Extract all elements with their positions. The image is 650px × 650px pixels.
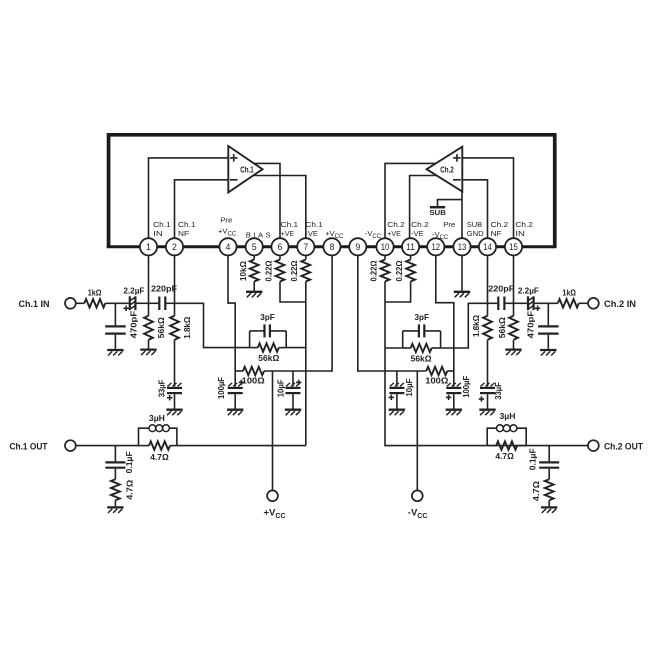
IC package outline xyxy=(107,135,557,247)
pin 13 xyxy=(453,238,470,255)
wire R 1k to node A xyxy=(105,302,129,304)
wire C 10uF to ground xyxy=(292,394,294,408)
wire C 10uF to ground Ch.2 xyxy=(396,394,398,408)
terminal -VCC xyxy=(408,490,428,520)
svg-text:6: 6 xyxy=(278,242,283,252)
wire NF node to feedback Ch.2 xyxy=(441,303,488,348)
capacitor 220pF Ch.1 xyxy=(151,284,177,310)
pin 14 label Ch.2 NF xyxy=(491,220,509,238)
wire Ch.2 IN terminal to R 1k xyxy=(579,302,588,304)
svg-text:-VE: -VE xyxy=(305,229,318,238)
svg-text:Ch.1 IN: Ch.1 IN xyxy=(19,299,50,309)
capacitor 2.2uF Ch.1 input xyxy=(123,285,144,311)
wire Ch.2 output to pin10 xyxy=(385,163,436,238)
capacitor 33uF Ch.1 xyxy=(157,380,182,401)
wire Zobel node down to C 0.1uF xyxy=(114,446,116,462)
wire Zobel node down to C 0.1uF Ch.2 xyxy=(548,446,550,462)
terminal Ch.2 OUT xyxy=(588,440,643,451)
pin 11 label Ch.2 -VE xyxy=(411,220,429,238)
svg-text:4: 4 xyxy=(226,242,231,252)
svg-text:11: 11 xyxy=(406,242,415,252)
ground below 470pF Ch.1 xyxy=(107,350,123,356)
wire feedback to output node Ch.2 xyxy=(385,347,403,349)
wire pin15 to Ch.2 + input xyxy=(462,158,513,238)
pin 12 xyxy=(427,238,444,255)
wire feedback left junction Ch.2 xyxy=(402,331,404,348)
svg-text:0.22Ω: 0.22Ω xyxy=(370,260,379,281)
resistor 1k ohm Ch.1 input xyxy=(84,288,105,308)
pin 11 xyxy=(402,238,419,255)
svg-text:2.2µF: 2.2µF xyxy=(518,285,539,295)
svg-text:SUB: SUB xyxy=(429,208,446,217)
pin 10 label Ch.2 +VE xyxy=(387,220,405,238)
svg-text:NF: NF xyxy=(178,229,189,238)
svg-text:220pF: 220pF xyxy=(488,284,514,294)
wire -VCC rail xyxy=(358,370,454,372)
svg-text:15: 15 xyxy=(509,242,518,252)
resistor 56k ohm Ch.1 feedback xyxy=(250,343,287,363)
svg-text:GND: GND xyxy=(467,229,485,238)
wire feedback right junction Ch.2 xyxy=(440,331,442,348)
resistor 0.22 ohm pin7 xyxy=(290,260,310,282)
wire C 2.2uF to pin1 node xyxy=(137,302,149,304)
svg-text:56kΩ: 56kΩ xyxy=(157,317,166,338)
wire R 1k to node B xyxy=(535,302,558,304)
pin 1 label Ch.1 IN xyxy=(153,220,171,238)
pin 5 xyxy=(246,238,263,255)
svg-text:0.1µF: 0.1µF xyxy=(125,451,134,473)
resistor 10k ohm BIAS xyxy=(239,260,259,282)
ground below 100uF Ch.2 xyxy=(446,410,462,416)
pin 9 label -VCC xyxy=(365,229,382,240)
resistor 0.22 ohm pin10 xyxy=(370,260,390,282)
wire Ch.2 output to pin11 xyxy=(410,176,437,239)
wire feedback left junction Ch.1 xyxy=(249,331,251,348)
resistor 0.22 ohm pin11 xyxy=(395,260,415,282)
terminal Ch.2 IN xyxy=(588,298,636,309)
pin 12 label Pre -VCC xyxy=(432,220,455,241)
wire pin8 down to +VCC rail xyxy=(331,255,333,371)
wire C 220pF to pin2 node xyxy=(166,302,174,304)
wire 10uF to +VCC rail xyxy=(292,371,294,387)
svg-text:-VCC: -VCC xyxy=(408,508,428,520)
pin 10 xyxy=(376,238,393,255)
svg-text:Ch.2: Ch.2 xyxy=(440,166,454,175)
svg-text:4.7Ω: 4.7Ω xyxy=(495,451,514,461)
svg-text:100µF: 100µF xyxy=(217,377,226,399)
wire pin13 to ground xyxy=(461,255,463,290)
wire R 1.8k to C 33uF xyxy=(174,340,176,387)
wire pin11 to R 0.22 xyxy=(410,255,412,259)
wire pin14 down to R 1.8k xyxy=(487,255,489,315)
node B wire down to C 470pF xyxy=(547,303,549,325)
svg-text:56kΩ: 56kΩ xyxy=(411,354,432,364)
svg-text:13: 13 xyxy=(458,242,467,252)
pin 7 label Ch.1 -VE xyxy=(305,220,323,238)
wire 10uF to -VCC rail xyxy=(396,371,398,387)
svg-text:10µF: 10µF xyxy=(405,379,414,397)
svg-text:7: 7 xyxy=(303,242,308,252)
resistor 1k ohm Ch.2 input xyxy=(558,288,579,308)
wire R 1.8k to C 33uF Ch.2 xyxy=(487,340,489,387)
pin 5 label BIAS xyxy=(246,230,271,239)
resistor 1.8k ohm Ch.2 xyxy=(472,315,492,340)
wire pin5 to R 10k xyxy=(253,255,255,259)
wire pin7 to R 0.22 xyxy=(305,255,307,259)
ground below Zobel Ch.2 xyxy=(541,507,557,513)
svg-text:470pF: 470pF xyxy=(526,311,535,339)
svg-text:33µF: 33µF xyxy=(157,380,166,398)
pin 15 xyxy=(505,238,522,255)
resistor 100 ohm +VCC filter xyxy=(242,367,265,386)
svg-text:Pre: Pre xyxy=(443,220,455,229)
svg-text:+VCC: +VCC xyxy=(264,508,286,520)
capacitor 470pF Ch.2 xyxy=(526,311,558,339)
inductor 3uH Ch.1 xyxy=(139,413,177,445)
wire Ch.1 IN terminal to R 1k xyxy=(76,302,85,304)
op-amp U2 Ch.2 xyxy=(427,147,463,192)
terminal Ch.1 IN xyxy=(19,298,76,309)
wire pin14 to Ch.2 - input xyxy=(462,180,487,238)
wire C 100uF to ground Ch.2 xyxy=(453,394,455,408)
svg-text:0.1µF: 0.1µF xyxy=(528,448,537,470)
resistor 4.7 ohm Ch.2 Zobel xyxy=(532,479,554,501)
wire pin15 down to R 56k xyxy=(513,255,515,315)
wire pin12 down to 100uF node xyxy=(436,255,454,386)
pin 2 xyxy=(166,238,183,255)
svg-text:3µH: 3µH xyxy=(149,413,165,423)
svg-text:0.22Ω: 0.22Ω xyxy=(395,260,404,281)
svg-text:2.2µF: 2.2µF xyxy=(123,285,144,295)
svg-text:Ch.1: Ch.1 xyxy=(240,166,254,175)
svg-text:+VCC: +VCC xyxy=(218,226,237,237)
svg-text:3pF: 3pF xyxy=(260,312,275,322)
svg-text:3pF: 3pF xyxy=(414,312,429,322)
wire pin6 to R 0.22 xyxy=(279,255,281,259)
wire Ch.1 output to pin7 xyxy=(253,176,306,239)
svg-text:BIAS: BIAS xyxy=(246,230,271,239)
substrate SUB symbol xyxy=(429,200,462,218)
svg-text:Ch.1 OUT: Ch.1 OUT xyxy=(10,441,48,451)
wire pin2 down to R 1.8k xyxy=(174,255,176,315)
ground below 10uF Ch.2 xyxy=(389,410,405,416)
wire NF node to feedback Ch.1 xyxy=(175,303,250,347)
svg-text:4.7Ω: 4.7Ω xyxy=(532,481,541,501)
resistor 56k ohm Ch.2 feedback xyxy=(403,344,441,364)
svg-text:-VCC: -VCC xyxy=(365,229,382,240)
capacitor 100uF Ch.1 supply xyxy=(217,377,244,399)
svg-text:100µF: 100µF xyxy=(462,376,471,398)
ground below 33uF Ch.2 xyxy=(479,410,495,416)
wire R 4.7 to ground xyxy=(114,500,116,506)
wire Ch.1 OUT to Zobel node xyxy=(76,445,139,447)
svg-text:100Ω: 100Ω xyxy=(242,376,265,386)
pin 7 xyxy=(297,238,314,255)
ground below 56k Ch.2 xyxy=(505,350,521,356)
pin 2 label Ch.1 NF xyxy=(178,220,196,238)
wire C 33uF to ground xyxy=(174,394,176,408)
svg-text:3µH: 3µH xyxy=(500,411,516,421)
svg-text:9: 9 xyxy=(355,242,360,252)
svg-text:IN: IN xyxy=(153,229,163,238)
ground below 100uF Ch.1 xyxy=(227,410,243,416)
capacitor 2.2uF Ch.2 input xyxy=(518,285,540,311)
wire Ch.1 output to pin6 xyxy=(254,163,280,238)
wire C 470pF to ground xyxy=(114,335,116,349)
ground below R 10k xyxy=(246,292,262,298)
svg-text:56kΩ: 56kΩ xyxy=(258,353,279,363)
wire pin1 down to R 56k xyxy=(148,255,150,315)
wire pin1 to Ch.1 + input xyxy=(149,158,229,238)
wire R 56k to ground xyxy=(148,340,150,349)
wire C 0.1uF to R 4.7 xyxy=(114,469,116,480)
wire Ch.2 output node down xyxy=(385,282,588,446)
wire R 10k to ground xyxy=(253,282,255,291)
wire pin4 down to 100uF node xyxy=(228,255,235,386)
svg-text:Ch.2 IN: Ch.2 IN xyxy=(604,299,636,309)
capacitor 3pF Ch.2 feedback xyxy=(403,312,441,338)
op-amp U1 Ch.1 xyxy=(228,146,262,192)
pin 4 label Pre +VCC xyxy=(218,216,237,238)
svg-text:1.8kΩ: 1.8kΩ xyxy=(472,315,481,337)
svg-text:+VE: +VE xyxy=(281,229,295,238)
wire +VCC terminal riser xyxy=(272,371,274,490)
resistor 100 ohm -VCC filter xyxy=(425,367,448,386)
capacitor 33uF Ch.2 xyxy=(479,382,504,401)
resistor 1.8k ohm Ch.1 xyxy=(170,316,192,340)
wire pin13 to Ch.2 substrate xyxy=(461,192,463,239)
capacitor 0.1uF Ch.1 Zobel xyxy=(105,451,134,473)
svg-text:1kΩ: 1kΩ xyxy=(562,288,576,298)
wire pin15 node to C 220pF xyxy=(506,302,514,304)
capacitor 220pF Ch.2 xyxy=(488,284,514,310)
resistor 56k ohm Ch.1 input xyxy=(144,316,166,340)
pin 14 xyxy=(479,238,496,255)
wire Ch.1 output node down xyxy=(305,282,307,446)
svg-text:470pF: 470pF xyxy=(130,311,139,339)
wire feedback to output node Ch.1 xyxy=(286,347,306,349)
svg-text:NF: NF xyxy=(491,229,502,238)
pin 15 label Ch.2 IN xyxy=(515,220,533,238)
svg-text:Pre: Pre xyxy=(220,216,232,225)
wire feedback right junction Ch.1 xyxy=(285,331,287,348)
ground below Zobel Ch.1 xyxy=(107,507,123,513)
wire pin10 to R 0.22 xyxy=(384,255,386,259)
svg-text:1.8kΩ: 1.8kΩ xyxy=(183,316,192,338)
svg-text:8: 8 xyxy=(329,242,334,252)
wire C 220pF to pin14 node xyxy=(488,302,498,304)
wire R 56k to ground Ch.2 xyxy=(513,340,515,349)
pin 6 label Ch.1 +VE xyxy=(281,220,299,238)
capacitor 3pF Ch.1 feedback xyxy=(250,312,287,338)
inductor 3uH Ch.2 xyxy=(487,411,526,445)
ground below 56k Ch.1 xyxy=(140,350,156,356)
svg-text:0.22Ω: 0.22Ω xyxy=(290,260,299,281)
resistor 4.7 ohm Ch.2 damping xyxy=(487,441,526,461)
wire C 33uF to ground Ch.2 xyxy=(487,394,489,408)
ground below 10uF Ch.1 xyxy=(285,410,301,416)
resistor 4.7 ohm Ch.1 Zobel xyxy=(111,479,135,500)
resistor 0.22 ohm pin6 xyxy=(264,260,284,282)
svg-text:0.22Ω: 0.22Ω xyxy=(264,260,273,281)
pin 13 label SUB GND xyxy=(467,220,485,238)
wire pin2 to Ch.1 - input xyxy=(175,180,229,238)
svg-text:IN: IN xyxy=(515,229,525,238)
wire pin9 down to -VCC rail xyxy=(357,255,359,371)
svg-text:4.7Ω: 4.7Ω xyxy=(126,479,135,499)
svg-text:14: 14 xyxy=(483,242,492,252)
svg-text:10kΩ: 10kΩ xyxy=(239,261,248,281)
svg-text:10µF: 10µF xyxy=(277,379,286,397)
svg-text:10: 10 xyxy=(381,242,390,252)
svg-text:12: 12 xyxy=(432,242,441,252)
resistor 4.7 ohm Ch.1 damping xyxy=(139,441,177,462)
node A wire down to C 470pF xyxy=(114,303,116,325)
ground below 33uF Ch.1 xyxy=(166,410,182,416)
pin 6 xyxy=(271,238,288,255)
svg-text:1kΩ: 1kΩ xyxy=(88,288,102,298)
pin 1 xyxy=(140,238,157,255)
svg-text:1: 1 xyxy=(146,242,151,252)
svg-text:Ch.2 OUT: Ch.2 OUT xyxy=(604,441,643,451)
wire C 0.1uF to R 4.7 Ch.2 xyxy=(548,469,550,480)
svg-text:33µF: 33µF xyxy=(494,382,503,400)
ground below 470pF Ch.2 xyxy=(540,350,556,356)
svg-text:2: 2 xyxy=(172,242,177,252)
wire C 470pF to ground Ch.2 xyxy=(547,335,549,349)
capacitor 470pF Ch.1 xyxy=(105,311,138,339)
capacitor 10uF Ch.2 supply xyxy=(389,379,414,401)
svg-text:100Ω: 100Ω xyxy=(425,376,448,386)
svg-text:5: 5 xyxy=(252,242,257,252)
wire +VCC rail xyxy=(235,370,332,372)
pin 9 xyxy=(349,238,366,255)
svg-text:220pF: 220pF xyxy=(151,284,177,294)
wire C 100uF to ground xyxy=(234,394,236,408)
svg-text:4.7Ω: 4.7Ω xyxy=(150,452,169,462)
pin 8 xyxy=(323,238,340,255)
wire joining 0.22 ohm resistors Ch.2 xyxy=(385,282,411,303)
resistor 56k ohm Ch.2 input xyxy=(498,316,518,340)
wire C 2.2uF to pin15 node xyxy=(514,302,527,304)
capacitor 10uF Ch.1 supply xyxy=(277,379,302,397)
terminal Ch.1 OUT xyxy=(10,440,76,451)
pin 8 label +VCC xyxy=(325,229,344,240)
wire -VCC terminal riser xyxy=(416,371,418,490)
capacitor 100uF Ch.2 supply xyxy=(446,376,471,400)
wire joining 0.22 ohm resistors Ch.1 xyxy=(280,282,306,303)
wire R 4.7 to ground Ch.2 xyxy=(548,500,550,506)
terminal +VCC xyxy=(264,490,286,520)
wire pin1 node to C 220pF xyxy=(149,302,159,304)
svg-text:-VE: -VE xyxy=(411,229,424,238)
wire Ch.1 output to pin7 riser xyxy=(177,445,306,447)
svg-text:+VE: +VE xyxy=(387,229,401,238)
capacitor 0.1uF Ch.2 Zobel xyxy=(528,448,559,470)
ground below pin13 xyxy=(454,292,470,298)
pin 4 xyxy=(219,238,236,255)
svg-text:56kΩ: 56kΩ xyxy=(498,317,507,338)
